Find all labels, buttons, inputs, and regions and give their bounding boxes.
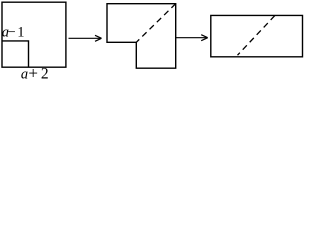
dashed diagonal of rectangle — [238, 16, 275, 56]
arrow 1 — [69, 35, 102, 41]
hexagon (middle figure, square with corner removed) — [107, 4, 176, 69]
big square (left figure) — [2, 2, 66, 67]
svg-text:a+2: a+2 — [21, 63, 49, 81]
small square cut lines — [2, 41, 29, 67]
arrow 2 — [176, 35, 208, 41]
dashed diagonal of hexagon — [136, 4, 175, 43]
svg-text:a−1: a−1 — [2, 24, 25, 40]
rectangle (right figure) — [211, 15, 303, 56]
